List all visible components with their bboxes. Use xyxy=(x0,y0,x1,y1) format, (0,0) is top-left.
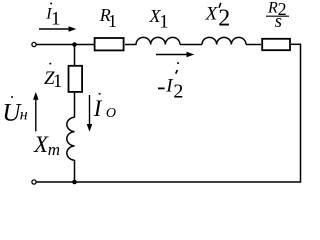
wire right vertical xyxy=(300,44,302,183)
inductor X'2 xyxy=(202,37,246,44)
label -I'2 (−İ′2) xyxy=(158,62,183,102)
label R2/s (fraction) xyxy=(266,0,289,32)
svg-text:н: н xyxy=(20,107,28,124)
current arrow I0 xyxy=(87,95,93,132)
label X'2 xyxy=(205,3,231,32)
inductor X1 xyxy=(136,37,180,44)
wire Xm to bottom xyxy=(74,160,76,182)
svg-text:O: O xyxy=(106,106,116,121)
label I1 (İ1) xyxy=(45,3,60,30)
wire junction to Z1 xyxy=(74,45,76,66)
wire bottom xyxy=(36,181,301,183)
terminal (bottom-left open circle) xyxy=(32,180,36,184)
label Xm xyxy=(33,132,60,159)
label I0 (İO) xyxy=(93,93,116,121)
current arrow I1 xyxy=(39,26,76,32)
impedance Z1 (box) xyxy=(69,66,83,92)
svg-text:s: s xyxy=(275,11,282,32)
node junction top (dot) xyxy=(72,42,77,47)
svg-text:1: 1 xyxy=(108,11,117,31)
terminal (input, top-left open circle) xyxy=(32,42,36,46)
current arrow -I'2 xyxy=(156,52,194,58)
svg-text:I: I xyxy=(93,96,103,121)
resistor R1 xyxy=(95,38,124,50)
voltage arrow U (up) xyxy=(33,92,39,131)
svg-text:2: 2 xyxy=(173,81,183,103)
label Z1 (Ż1) xyxy=(44,63,62,92)
svg-text:2: 2 xyxy=(218,6,230,32)
svg-text:1: 1 xyxy=(159,11,169,32)
wire top-left: terminal to R1 xyxy=(36,44,94,46)
wire X1 to X'2 xyxy=(180,44,202,46)
node junction bottom (dot) xyxy=(72,180,77,185)
inductor Xm xyxy=(67,117,75,160)
svg-text:1: 1 xyxy=(53,71,63,92)
svg-text:m: m xyxy=(48,140,60,159)
svg-text:X: X xyxy=(33,132,49,157)
label R1 xyxy=(99,5,117,31)
svg-text:X: X xyxy=(205,4,219,25)
svg-text:1: 1 xyxy=(51,9,61,30)
resistor R2/s xyxy=(262,39,290,50)
label U_n (Ůн) xyxy=(2,96,27,126)
wire X'2 to R2/s xyxy=(246,44,261,46)
wire Z1 to Xm xyxy=(74,93,76,118)
label X1 xyxy=(149,6,169,33)
wire R1 to X1 xyxy=(125,44,137,46)
wire R2/s to right corner xyxy=(291,43,301,45)
